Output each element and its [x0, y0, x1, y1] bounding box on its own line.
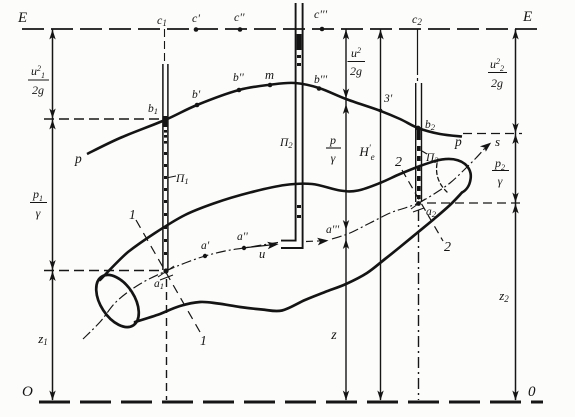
svg-text:m: m [265, 68, 274, 82]
svg-text:2: 2 [444, 240, 451, 255]
svg-text:γ: γ [331, 151, 336, 165]
svg-text:c1: c1 [157, 13, 167, 28]
svg-text:p1: p1 [32, 187, 43, 203]
svg-text:p: p [74, 151, 82, 166]
svg-text:П3: П3 [425, 152, 439, 165]
svg-text:b': b' [192, 89, 201, 101]
svg-text:γ: γ [36, 206, 41, 220]
svg-text:2g: 2g [491, 76, 503, 90]
svg-text:a1: a1 [154, 278, 164, 291]
svg-text:b2: b2 [425, 119, 436, 132]
svg-text:П1: П1 [175, 173, 189, 186]
svg-text:p2: p2 [494, 156, 505, 172]
svg-text:u22: u22 [490, 57, 504, 73]
svg-text:H'e: H'e [358, 143, 374, 162]
svg-text:3': 3' [383, 93, 393, 105]
svg-text:s: s [495, 134, 500, 149]
svg-text:c2: c2 [412, 12, 422, 27]
svg-text:2g: 2g [350, 64, 362, 78]
svg-text:a'': a'' [237, 231, 248, 243]
svg-text:c''': c''' [314, 7, 327, 21]
svg-text:0: 0 [528, 384, 536, 400]
svg-text:П2: П2 [279, 137, 293, 150]
svg-text:u2: u2 [351, 46, 361, 60]
svg-text:1: 1 [200, 333, 207, 348]
svg-text:u: u [259, 247, 265, 261]
svg-text:O: O [22, 384, 33, 400]
svg-text:E: E [522, 9, 532, 25]
svg-text:2: 2 [395, 155, 402, 170]
svg-text:a': a' [201, 240, 210, 252]
svg-text:b1: b1 [148, 103, 158, 116]
svg-text:b''': b''' [314, 74, 328, 86]
svg-text:1: 1 [129, 207, 136, 222]
svg-text:u21: u21 [31, 64, 45, 80]
svg-text:z1: z1 [37, 331, 48, 347]
svg-text:c'': c'' [234, 10, 245, 24]
svg-text:2g: 2g [32, 83, 44, 97]
svg-text:z: z [330, 328, 337, 343]
svg-text:a''': a''' [326, 224, 340, 236]
svg-text:a2: a2 [426, 206, 437, 219]
svg-text:p: p [329, 133, 336, 147]
svg-text:p: p [454, 134, 462, 149]
svg-text:b'': b'' [233, 72, 244, 84]
svg-text:γ: γ [498, 174, 503, 188]
svg-text:z2: z2 [498, 288, 509, 304]
svg-text:E: E [17, 10, 27, 26]
svg-text:c': c' [192, 11, 200, 25]
